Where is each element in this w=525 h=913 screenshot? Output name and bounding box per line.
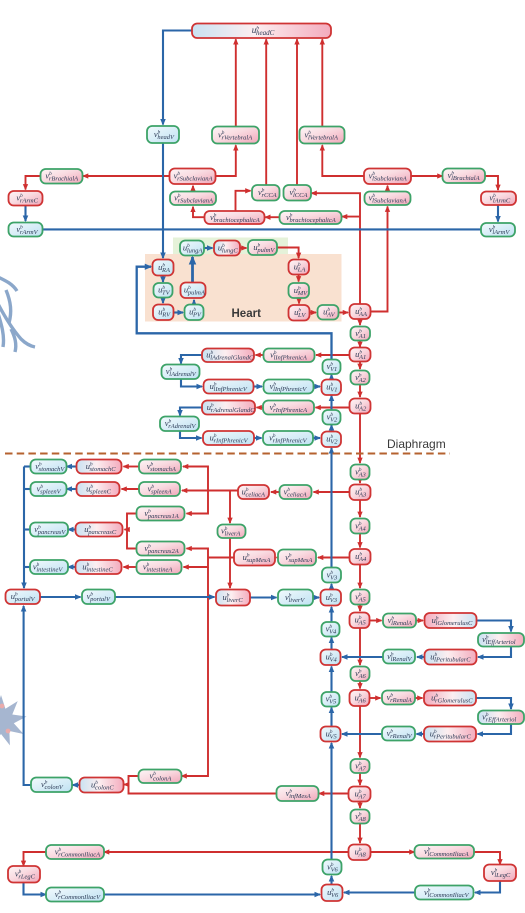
wire v_rArmC to v_rArmV [24,206,26,222]
node u_pulmV [248,240,277,255]
node v_liverA [218,525,246,539]
node u_supMesA [234,550,275,566]
node u_TV [154,283,173,298]
wire u_rGlomerulusC to v_rEffArteriol [476,698,511,709]
wire u_A4 to v_supMesA [318,557,350,559]
wire v_lArmC to v_lArmV [497,205,499,222]
wire portal collecting line to u_portalV [23,467,25,589]
wire v_headV down to u_RA [162,143,164,258]
wire u_pancreasC to v_pancreasV [68,528,76,530]
wire v_rCommonIliacV to u_V6 [103,893,321,895]
node u_headC [192,24,331,39]
node u_A2 [350,399,371,414]
node u_colonC [80,778,124,793]
node v_rRenalA [382,691,415,705]
node u_lungC [214,241,240,256]
wire u_A2 to v_rInfPhrenicA [316,407,350,409]
wire v_rCCA up to u_headC [265,39,267,185]
node v_rSubclavianA upper [170,169,216,185]
wire u_supMesA to junction [208,557,234,559]
node v_stomachV [31,460,67,474]
wire u_portalV to v_portalV [40,596,81,598]
wire u_TV to u_RV [162,299,164,303]
wire v_brachiocephalicA green to red [265,216,279,218]
wire v_brachiocephalicA red top to v_rCCA [236,191,251,211]
wire v_spleenV left stub [24,488,31,490]
wire u_V3 to v_V3 [330,584,332,590]
wire v_stomachA to u_stomachC [124,466,140,468]
node u_intestineC [76,560,122,574]
wire v_lLegC to v_lCommonIliacV [475,881,500,893]
wire u_A3 to v_celiacA [314,491,350,493]
wire u_lGlomerulusC to v_lEffArteriol [477,621,512,632]
wire v_spleenA to u_spleenC [122,488,140,490]
watermark blob left lower [0,695,27,746]
node v_A5 [351,590,370,605]
heart region background [145,254,342,322]
node v_V6 [323,860,342,875]
wire v_liverA to u_liverC [229,538,231,588]
wire v_lAdrenalV to u_lInfPhrenicV [181,379,202,387]
node v_lRenalV [383,650,415,664]
wire v_lInfPhrenicA to u_lAdrenalGlandC [256,354,264,356]
node v_lCommonIliacV [415,886,474,900]
node v_A6 [351,667,370,682]
node u_A5 [350,613,370,629]
node u_LV [289,305,310,321]
node v_liverV [278,590,313,606]
node v_rRenalV [382,727,415,741]
node v_spleenA [139,482,180,496]
node u_V4 [321,650,341,666]
node u_V6 [322,885,343,902]
wire branch to v_brachiocephalicA green [342,216,360,218]
node v_lSubclavianA lower [365,192,411,206]
wire u_A3 to v_A4 [359,500,361,517]
wire v_lCCA up to u_headC [296,39,298,185]
node u_pancreasC [76,523,123,537]
wire u_rAdrenalGlandC to v_rAdrenalV [180,408,202,416]
node v_lArmC [481,192,516,206]
wire u_V1 to v_V1 [330,375,332,380]
node u_lInfPhrenicV [204,380,254,394]
wire v_supMesA to u_supMesA [277,557,279,559]
node u_LA [289,260,310,275]
node v_A8 [351,810,370,824]
node v_A4 [351,519,370,534]
node u_A3 [350,485,371,501]
node v_lEffArteriol [478,633,524,647]
node u_celiacA [238,485,269,499]
node u_A4 [350,549,371,565]
wire v_rCommonIliacA to v_rLegC [24,852,48,866]
node v_V5 [322,692,340,707]
wire v_A3 to u_A3 [359,480,361,484]
node v_headV [147,126,179,143]
wire supMes branch down to v_colonA [182,567,209,776]
wire v_lCommonIliacV to u_V6 [344,891,417,893]
wire v_rInfPhrenicA to u_rAdrenalGlandC [257,407,264,409]
wire v_A2 to u_A2 [359,385,361,398]
node v_lBrachialA [443,169,486,184]
node v_A1 [351,327,371,341]
node v_rSubclavianA lower [170,192,216,206]
node v_A3 [351,465,370,480]
node u_stomachC [77,460,122,474]
node u_A7 [349,787,371,802]
wire u_A6 to v_rRenalA [370,697,381,699]
wire v_lBrachialA to v_lArmC [485,176,498,190]
node u_A8 [349,845,371,861]
node v_rAdrenalV [160,417,199,432]
node v_lCCA [284,185,312,201]
wire u_V2 to v_V2 [330,425,332,432]
wire u_lungA to u_lungC [204,247,213,249]
wire u_V4 to v_V4 [330,638,332,650]
wire v_rSubclavianA to v_rBrachialA [83,175,170,177]
node v_brachiocephalicA right [280,211,342,224]
wire pancreas arteries join [127,514,137,549]
wire v_lSubclavianA green to red [387,186,389,191]
wire v_lEffArteriol to u_lPeritubularC [478,646,511,657]
wire v_A4 to u_A4 [359,534,361,548]
node v_lLegC [484,865,516,882]
wire u_lPeritubularC to v_lRenalV [417,656,425,658]
wire v_rBrachialA to v_rArmC [26,176,41,190]
wire inferior vena cava to u_RA [137,267,332,359]
node v_intestineA [137,560,182,574]
node u_rAdrenalGlandC [202,401,255,415]
wire v_A8 to u_A8 [359,824,361,844]
wire v_lCommonIliacA to v_lLegC [474,852,500,865]
node v_infMesA [277,786,319,801]
node v_rCommonIliacV [46,888,104,902]
wire v_stomachV to portal line [67,465,77,467]
node v_lCommonIliacA [415,845,475,859]
node u_V2 [322,432,342,448]
wire v_portalV to u_liverC [115,596,215,598]
wire v_rVertebralA up to u_headC [235,39,237,126]
wire u_A8 to v_lCommonIliacA [371,851,415,853]
wire v_A7 to u_A7 [359,773,361,785]
wire v_V6 to u_V5 [330,743,332,860]
node u_MV [289,283,310,298]
wire v_rRenalV to u_V5 [342,733,382,735]
wire v_rEffArteriol to u_rPeritubularC [478,724,512,734]
wire u_A7 to v_infMesA [319,793,349,795]
wire u_liverC to v_liverV [250,596,277,598]
wire u_LA to u_MV [298,275,300,282]
node u_pulmA [181,283,206,299]
wire u_pulmA to u_lungA [191,257,194,283]
wire v_colonA junction to u_colonC [124,784,129,786]
wire u_MV to u_LV [298,298,300,304]
wire v_V4 to u_V3 [330,607,332,622]
wire v_rSubclavianA green to red [192,186,194,191]
node v_lVertebralA [300,127,345,144]
wire v_rLegC to v_rCommonIliacV [24,883,47,895]
wire v_A6 to u_A6 [359,681,361,689]
node u_spleenC [77,482,120,496]
node v_rCommonIliacA [46,845,104,859]
wire u_V5 to v_V5 [330,708,332,727]
node v_lInfPhrenicA [264,349,315,363]
wire celiac branch to v_pancreas1A [187,491,209,514]
wire v_rInfPhrenicV to u_V2 [313,437,320,439]
wire u_A6 to v_A7 [359,706,361,758]
node u_lAdrenalGlandC [202,349,254,363]
wire u_PV to u_pulmA [193,300,195,305]
wire v_V3 to u_V2 across diaphragm [330,448,332,568]
wire u_A2 to v_A3 across diaphragm [359,414,361,464]
node v_rInfPhrenicA [263,401,314,415]
wire u_AA to v_A1 [359,319,361,325]
wire v_celiacA to u_celiacA [271,491,280,493]
wire u_LV to u_AV [310,312,317,314]
wire u_colonC to v_colonV [73,784,80,786]
node v_lSubclavianA upper [364,169,411,185]
wire u_celiacA to v_spleenA [182,490,238,492]
wire celiac branch to v_liverA [229,491,231,524]
node v_portalV [82,590,115,605]
node v_stomachA [139,460,181,474]
wire u_rPeritubularC to v_rRenalV [417,733,425,735]
node u_V3 [321,590,342,606]
wire supMes branch to v_pancreas2A [187,549,209,558]
wire u_AA right up to v_lSubclavianA green [371,207,388,312]
node u_A1 [350,348,371,362]
lung region background [173,238,288,257]
wire v_lRenalA to u_lGlomerulusC [416,620,423,622]
svg-text:Diaphragm: Diaphragm [387,437,446,451]
node v_rInfPhrenicV [263,431,313,445]
node v_supMesA [278,550,316,566]
node u_liverC [216,590,250,606]
wire u_A1 to v_A2 [359,362,361,370]
wire v_rRenalA to u_rGlomerulusC [415,697,423,699]
wire v_lVertebralA up to u_headC [321,39,323,126]
node v_V3 [322,568,341,583]
node u_PV [185,305,204,321]
node u_RA [153,260,174,276]
node u_RV [153,305,174,321]
node u_rGlomerulusC [424,691,476,706]
node v_lInfPhrenicV [264,380,314,394]
wire v_A1 to u_A1 [359,341,361,348]
wire v_pancreasV left stub [24,528,30,530]
node u_lungA [180,241,204,256]
wire v_colonV to u_portalV [24,606,31,785]
wire celiac branch to v_stomachA [183,467,208,491]
wire supMes branch to v_intestineA [184,558,209,568]
node v_colonA [139,770,182,784]
wire u_rInfPhrenicV to v_rInfPhrenicV [254,437,262,439]
watermark vessel sketch left upper [0,276,35,352]
node u_rPeritubularC [424,727,476,742]
node u_AA [350,304,371,319]
node u_A6 [350,690,370,706]
wire u_AV to u_AA [339,312,349,314]
node v_V4 [322,622,340,637]
node v_V2 [323,410,341,425]
wire v_infMesA to colon junction [129,776,277,794]
node v_lAdrenalV [162,365,200,380]
wire aorta u_AA top to v_lCCA [312,193,361,305]
wire v_lInfPhrenicV to u_V1 [314,385,321,387]
wire u_lungC to u_pulmV [240,247,247,249]
wire v_intestineA to u_intestineC [124,566,137,568]
wire u_RV to u_PV [174,311,184,313]
node v_rEffArteriol [478,711,524,725]
wire u_intestineC to v_intestineV [68,566,76,568]
node v_rBrachialA [41,169,83,184]
wire u_spleenC to v_spleenV [67,488,77,490]
node u_V1 [322,380,342,396]
node v_A2 [351,371,370,385]
wire u_RA to u_TV [162,276,164,283]
node u_portalV [6,590,41,605]
node v_rArmV [9,223,43,237]
node v_brachiocephalicA left [205,211,265,224]
node v_pancreas1A [137,507,185,521]
wire u_A5 to v_A6 [359,628,361,665]
node u_lPeritubularC [425,650,477,665]
wire v_rSubclavianA right to v_rVertebralA [216,145,236,176]
node v_pancreas2A [137,542,185,556]
node v_V1 [323,360,341,375]
node v_rCCA [252,185,280,201]
wire u_A4 to v_A5 [359,565,361,589]
wire v_stomachV left stub [24,465,31,467]
wire superior vena cava line [43,228,482,230]
node u_AV [318,305,339,320]
wire u_A1 to v_lInfPhrenicA [316,354,350,356]
node u_V5 [321,727,341,742]
node u_rInfPhrenicV [203,431,254,445]
node v_rVertebralA [212,127,259,144]
wire u_lAdrenalGlandC to v_lAdrenalV [181,355,202,364]
diaphragm dashed line [5,452,450,454]
svg-text:Heart: Heart [232,308,262,320]
wire v_V2 to u_V1 [330,396,332,410]
wire v_lSubclavianA right to v_lBrachialA [411,175,443,177]
node u_lGlomerulusC [425,613,477,628]
node v_lRenalA [383,614,416,628]
wire pancreas junction to u_pancreasC [125,529,128,531]
node v_pancreasV [30,523,68,537]
wire v_intestineV left stub [24,566,30,568]
wire v_V5 to u_V4 [330,667,332,692]
wire v_brachiocephalicA red to green v_rSubclavianA [193,207,205,217]
wire u_V6 to v_V6 [330,876,332,885]
node v_spleenV [31,482,67,496]
wire u_headC to v_headV [163,31,192,125]
wire v_A5 to u_A5 [359,605,361,612]
wire v_lSubclavianA left to v_lVertebralA [322,145,364,176]
node v_rArmC [9,191,43,206]
node v_intestineV [30,560,68,574]
node v_celiacA [280,485,312,499]
node v_rLegC [8,866,40,883]
wire u_A5 to v_lRenalA [370,620,382,622]
wire v_liverV to u_V3 [313,596,319,598]
node v_colonV [31,778,72,793]
node v_lArmV [481,223,515,237]
wire u_A7 to v_A8 [359,802,361,809]
wire v_rAdrenalV to u_rInfPhrenicV [180,431,202,438]
node v_A7 [351,759,370,773]
wire u_lInfPhrenicV to v_lInfPhrenicV [254,385,263,387]
wire u_pulmV to u_LA [277,248,299,259]
wire v_lRenalV to u_V4 [342,656,383,658]
wire u_A8 to v_rCommonIliacA [104,851,349,853]
